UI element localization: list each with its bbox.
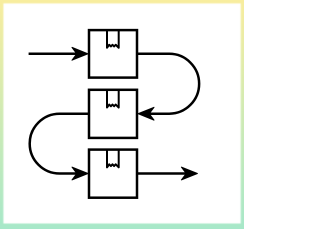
box B3 [89, 150, 137, 198]
arrowhead into B3 (pointing right) [72, 167, 88, 180]
package flap of box B2 [107, 90, 119, 108]
output arrowhead (pointing right) [181, 167, 197, 180]
wire: input arrow line into B1 [29, 53, 78, 56]
box B1 [89, 30, 137, 78]
wire: curved arrow B1 to B2 (right side U-turn) [138, 54, 199, 114]
arrowhead into B1 (pointing right) [72, 47, 88, 60]
wire: output arrow line from B3 [138, 172, 187, 175]
arrowhead into B2 (pointing left) [138, 107, 154, 120]
package flap of box B1 [107, 30, 119, 48]
package flap of box B3 [107, 150, 119, 168]
box B2 [89, 90, 137, 138]
gradient frame border [0, 0, 244, 229]
wire: curved arrow B2 to B3 (left side U-turn) [30, 114, 89, 174]
